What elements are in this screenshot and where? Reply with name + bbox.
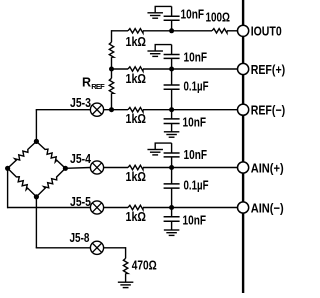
label 1kOhm row2 xyxy=(126,71,147,86)
svg-text:10nF: 10nF xyxy=(184,49,208,64)
wire bridge left vertex drop xyxy=(7,168,9,208)
label 10nF row4 xyxy=(184,147,208,162)
resistor R 1k (row1) xyxy=(128,29,143,33)
junction bridge right vertex xyxy=(63,166,68,171)
svg-text:1kΩ: 1kΩ xyxy=(126,169,147,184)
wire: analog input bus (vertical) xyxy=(242,0,244,293)
terminal IOUT0 on bus xyxy=(238,25,249,36)
label 0.1uF lower xyxy=(184,178,209,193)
resistor bridge bottom-left arm xyxy=(8,168,37,197)
label 1kOhm row4 xyxy=(126,169,147,184)
wire bridge feed (J5-3 down to top vertex) xyxy=(35,110,37,142)
ground row4 (chassis) xyxy=(147,150,163,155)
svg-text:10nF: 10nF xyxy=(184,147,208,162)
wire J5-3 to junction xyxy=(104,109,128,111)
svg-text:REF(−): REF(−) xyxy=(251,103,286,118)
label 470Ohm xyxy=(132,257,157,272)
svg-text:J5-3: J5-3 xyxy=(70,95,91,110)
resistor R 1k (row2) xyxy=(128,67,143,71)
resistor R 1k (row4) xyxy=(128,165,143,169)
wire chain bottom xyxy=(111,93,113,109)
svg-text:J5-8: J5-8 xyxy=(70,230,90,245)
label J5-5 xyxy=(70,194,91,209)
resistor chain upper (vertical) xyxy=(109,42,113,57)
wire chain mid1 xyxy=(111,57,113,69)
capacitor C 10nF (row3) xyxy=(164,119,180,124)
wire row3 right segment xyxy=(143,109,238,111)
label 100Ohm xyxy=(206,9,231,24)
connector J5-5 (circle-X) xyxy=(90,201,103,214)
label 1kOhm row5 xyxy=(126,209,147,224)
svg-text:1kΩ: 1kΩ xyxy=(126,111,147,126)
resistor R 1k (row5) xyxy=(128,205,143,209)
wire row4 right segment xyxy=(143,167,238,169)
terminal AIN(-) on bus xyxy=(238,202,249,213)
wire chain mid2 xyxy=(111,69,113,78)
wire cap column r2-r3 upper xyxy=(171,69,173,85)
connector J5-8 (circle-X) xyxy=(90,241,103,254)
capacitor C 10nF (row2) xyxy=(164,55,180,59)
label AIN(−) xyxy=(251,200,284,215)
svg-text:0.1µF: 0.1µF xyxy=(184,178,209,193)
wire cap1 top bridge xyxy=(155,6,172,16)
label 1kOhm row1 xyxy=(126,34,147,49)
wire bottom vertex to J5-8 xyxy=(36,247,91,249)
resistor R 1k (row3) xyxy=(128,108,143,112)
svg-text:470Ω: 470Ω xyxy=(132,257,157,272)
junction row2 cap node xyxy=(169,67,174,72)
svg-text:10nF: 10nF xyxy=(183,213,207,228)
svg-text:REF: REF xyxy=(91,82,105,91)
wire cap1 stem xyxy=(171,20,173,31)
junction row1 cap node xyxy=(169,28,174,33)
label 10nF row5 xyxy=(183,213,207,228)
wire J5-3 to bridge xyxy=(36,109,91,111)
label R_REF xyxy=(82,76,105,91)
resistor R_REF (vertical) xyxy=(109,78,113,93)
resistor bridge bottom-right arm xyxy=(36,168,65,197)
svg-text:IOUT0: IOUT0 xyxy=(251,24,282,39)
svg-text:J5-4: J5-4 xyxy=(70,151,92,166)
junction bridge bottom vertex xyxy=(34,194,39,199)
svg-text:R: R xyxy=(82,76,91,90)
wire cap column r4-r5 upper xyxy=(171,168,173,184)
svg-text:1kΩ: 1kΩ xyxy=(126,71,147,86)
wire row5 right segment xyxy=(143,207,238,209)
svg-text:REF(+): REF(+) xyxy=(251,62,286,77)
capacitor C 0.1uF (upper) xyxy=(164,85,180,89)
label 1kOhm row3 xyxy=(126,111,147,126)
wire cap5 lower stem xyxy=(171,221,173,230)
svg-text:J5-5: J5-5 xyxy=(70,194,91,209)
terminal AIN(+) on bus xyxy=(238,162,249,173)
capacitor C 10nF (row5) xyxy=(164,217,180,222)
label AIN(+) xyxy=(251,160,284,175)
capacitor C 10nF (row4) xyxy=(164,153,180,157)
wire cap3 stem xyxy=(171,110,173,119)
wire row1 mid segment xyxy=(143,30,212,32)
wire row2 left segment xyxy=(112,68,129,70)
svg-text:AIN(−): AIN(−) xyxy=(251,200,284,215)
junction row5 cap node xyxy=(169,205,174,210)
ground row1 (chassis) xyxy=(147,13,163,18)
capacitor C 0.1uF (lower) xyxy=(164,184,180,188)
ground row3 xyxy=(164,132,180,137)
wire cap3 lower stem xyxy=(171,124,173,132)
capacitor C 10nF (row1) xyxy=(164,16,180,20)
label 10nF row1 xyxy=(181,6,205,21)
svg-text:1kΩ: 1kΩ xyxy=(126,34,147,49)
junction chain row2 xyxy=(109,67,114,72)
wire chain top corner xyxy=(111,30,113,42)
svg-text:0.1µF: 0.1µF xyxy=(184,79,209,94)
junction bridge top vertex xyxy=(34,139,39,144)
ground row5 xyxy=(164,230,180,235)
wire cap column r2-r3 lower xyxy=(171,89,173,110)
resistor bridge top-left arm xyxy=(8,141,37,168)
wire cap5 stem xyxy=(171,208,173,217)
resistor R 100Ohm xyxy=(212,29,227,33)
wire cap column r4-r5 lower xyxy=(171,188,173,207)
junction row4 cap node xyxy=(169,165,174,170)
wire bridge bottom vertex drop xyxy=(35,197,37,248)
wire row2 right segment xyxy=(143,68,238,70)
wire cap2 top bridge xyxy=(155,45,172,55)
resistor bridge top-right arm xyxy=(36,141,65,168)
connector J5-4 (circle-X) xyxy=(90,161,103,174)
label J5-3 xyxy=(70,95,91,110)
wire row1 right segment xyxy=(227,30,238,32)
label J5-8 xyxy=(70,230,90,245)
ground row2 (chassis) xyxy=(147,51,163,56)
label REF(+) xyxy=(251,62,286,77)
label J5-4 xyxy=(70,151,92,166)
connector J5-3 (circle-X) xyxy=(90,103,103,116)
terminal REF(+) on bus xyxy=(238,63,249,74)
svg-text:AIN(+): AIN(+) xyxy=(251,160,284,175)
svg-text:10nF: 10nF xyxy=(183,115,207,130)
wire left-vertex to J5-5 xyxy=(7,207,90,209)
label 10nF row2 xyxy=(184,49,208,64)
svg-text:100Ω: 100Ω xyxy=(206,9,231,24)
junction bridge left vertex xyxy=(5,166,10,171)
terminal REF(-) on bus xyxy=(238,104,249,115)
ground 470Ohm xyxy=(118,282,134,287)
svg-text:10nF: 10nF xyxy=(181,6,205,21)
wire cap2 stem xyxy=(171,58,173,69)
wire J5-8 right + corner down xyxy=(104,247,126,258)
label 10nF row3 xyxy=(183,115,207,130)
label REF(−) xyxy=(251,103,286,118)
label IOUT0 xyxy=(251,24,282,39)
wire row1 left segment xyxy=(112,30,129,32)
wire cap4 stem xyxy=(171,157,173,168)
wire J5-5 to resistor xyxy=(104,207,128,209)
wire cap4 top bridge xyxy=(155,143,172,153)
wire bridge right vertex to J5-4 xyxy=(65,167,90,170)
resistor R 470Ohm (vertical) xyxy=(123,258,127,273)
svg-text:1kΩ: 1kΩ xyxy=(126,209,147,224)
wire J5-4 to resistor xyxy=(104,167,128,169)
junction row3 cap node xyxy=(169,107,174,112)
junction chain row3 xyxy=(109,107,114,112)
label 0.1uF upper xyxy=(184,79,209,94)
wire 470 to ground xyxy=(125,273,127,282)
